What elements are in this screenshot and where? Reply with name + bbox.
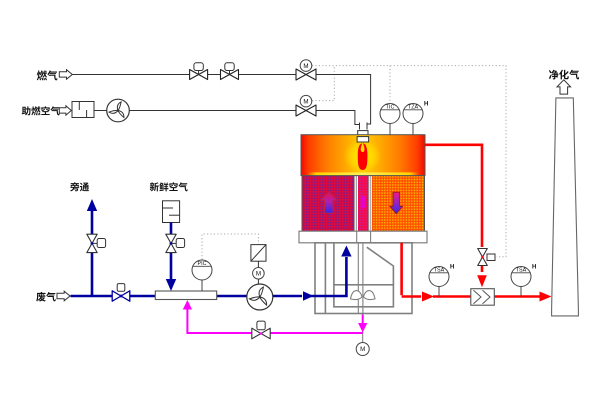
- label fuel gas: [37, 70, 47, 80]
- distributor motor shaft: [362, 314, 364, 343]
- svg-text:TIC: TIC: [386, 105, 395, 111]
- bypass line: [91, 211, 94, 296]
- combustion air pipe: [94, 110, 107, 112]
- regenerator bed right: [372, 176, 425, 232]
- heat exchanger: [471, 289, 495, 306]
- stack inlet arrow: [540, 292, 552, 302]
- instrument TSA1 stem: [438, 287, 440, 297]
- fuel gas inlet arrow: [59, 70, 72, 79]
- svg-text:H: H: [424, 102, 428, 108]
- svg-text:TSA: TSA: [516, 268, 527, 274]
- instrument TZA stem: [412, 124, 414, 135]
- up arrow into left bed: [341, 246, 351, 257]
- burner nozzle lower: [357, 137, 369, 142]
- combustion air blower B1: [107, 99, 130, 122]
- svg-text:M: M: [303, 63, 308, 70]
- regenerator bed left: [302, 176, 355, 232]
- waste gas valve actuator: [120, 284, 122, 291]
- recirculation line: [187, 308, 362, 333]
- burner nozzle: [358, 131, 368, 137]
- manual valve V2 actuator: [229, 71, 231, 75]
- blower motor link: [257, 261, 259, 267]
- svg-text:H: H: [450, 265, 454, 271]
- blower motor M: [253, 268, 265, 280]
- bed left up-flow arrow: [321, 192, 337, 213]
- svg-text:M: M: [303, 98, 308, 105]
- bed right down-flow arrow: [390, 192, 403, 213]
- fuel gas pipe: [72, 74, 296, 76]
- stack: [552, 98, 579, 316]
- center channel wall left: [354, 176, 356, 232]
- fresh air arrow into duct: [166, 279, 176, 291]
- distributor motor M: [356, 343, 369, 356]
- hot gas valve actuator: [487, 254, 495, 261]
- waste gas valve: [112, 291, 130, 301]
- recirculation arrow up into duct: [183, 300, 192, 310]
- manual valve V1 actuator: [198, 71, 200, 75]
- hot gas arrow into HX left: [422, 292, 434, 302]
- center channel small arrow: [360, 195, 366, 209]
- main blower B2: [247, 284, 273, 310]
- bed support band: [299, 231, 427, 243]
- instrument PIC: [192, 260, 212, 280]
- VFD damper symbol: [251, 245, 266, 262]
- instrument TZA: [403, 104, 423, 124]
- center channel: [358, 176, 369, 232]
- instrument TSA2 stem: [520, 287, 522, 297]
- fresh air filter: [163, 201, 180, 223]
- combustion air inlet arrow: [59, 106, 71, 115]
- burner flame: [358, 143, 368, 170]
- control signal dotted line TIC to valves and damper: [202, 66, 506, 260]
- motor valve MV1: [296, 69, 316, 80]
- bypass valve actuator: [92, 242, 99, 244]
- fresh air valve: [166, 234, 176, 252]
- hot gas pipe top: [402, 145, 540, 297]
- air filter F1: [72, 102, 94, 118]
- label fresh air: [150, 182, 159, 191]
- label combustion air: [22, 106, 31, 115]
- manual valve V2: [221, 70, 239, 80]
- bed section border: [302, 176, 425, 232]
- motor valve MV1 motor: [300, 60, 312, 72]
- manual valve V1: [190, 70, 208, 80]
- svg-text:TZA: TZA: [408, 105, 419, 111]
- hot gas valve: [478, 249, 488, 266]
- fresh air pipe: [170, 223, 173, 280]
- instrument TIC stem: [389, 124, 391, 135]
- mixing duct: [155, 291, 216, 300]
- svg-text:M: M: [360, 346, 365, 353]
- instrument TIC: [380, 104, 400, 124]
- bypass valve: [87, 234, 97, 252]
- svg-text:TSA: TSA: [434, 268, 445, 274]
- instrument PIC stem: [201, 280, 203, 291]
- label purified gas: [549, 70, 559, 80]
- label waste gas: [36, 292, 45, 302]
- distribution box: [315, 243, 412, 314]
- waste gas pipe: [71, 257, 347, 296]
- motor valve MV2 motor: [300, 95, 312, 107]
- hot gas arrow into HX top: [477, 275, 487, 287]
- fresh air valve actuator: [171, 242, 178, 244]
- chamber bottom glow: [307, 172, 419, 175]
- instrument TSA2: [511, 267, 531, 287]
- center channel wall right: [369, 176, 371, 232]
- instrument TSA1: [429, 267, 449, 287]
- bypass arrow: [87, 199, 97, 211]
- burner neck: [359, 123, 361, 130]
- motor valve MV2: [296, 105, 316, 116]
- distributor shaft: [357, 231, 371, 313]
- purified gas arrow: [557, 80, 571, 94]
- furnace combustion chamber: [301, 135, 425, 176]
- recirculation valve actuator: [260, 328, 262, 330]
- svg-text:H: H: [532, 265, 536, 271]
- recirculation valve: [252, 328, 270, 339]
- waste gas inlet arrow: [57, 291, 70, 301]
- recirculation arrow down: [358, 323, 367, 333]
- rotary distributor: [351, 291, 376, 300]
- svg-text:PIC: PIC: [198, 261, 207, 267]
- waste gas arrow into box: [303, 291, 314, 301]
- svg-text:M: M: [256, 271, 261, 278]
- label bypass: [70, 182, 79, 191]
